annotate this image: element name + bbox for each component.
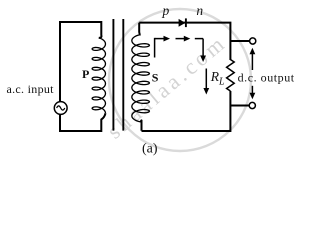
wire: primary top (a.c. side)	[60, 22, 101, 102]
inductor S (transformer secondary winding)	[132, 35, 150, 122]
transformer core	[113, 19, 123, 131]
wire: secondary top rail	[139, 23, 230, 60]
current direction arrows (conduction path)	[155, 36, 206, 62]
output terminal (+)	[250, 38, 256, 44]
diode D1 (p-n junction diode)	[179, 18, 186, 27]
resistor RL	[227, 60, 235, 92]
svg-text:a.c. input: a.c. input	[7, 82, 55, 96]
output terminal (-)	[249, 102, 255, 108]
inductor P (transformer primary winding)	[92, 38, 105, 113]
svg-text:S: S	[152, 71, 159, 85]
wire: primary bottom	[60, 113, 106, 131]
output voltage double arrow	[250, 48, 256, 99]
wire: output branch top	[230, 40, 249, 42]
svg-text:p: p	[162, 3, 170, 18]
svg-text:d.c. output: d.c. output	[238, 71, 295, 85]
current arrow through load	[205, 69, 207, 89]
wire: right rail below resistor	[142, 91, 231, 131]
ac source G1	[54, 102, 67, 115]
svg-text:(a): (a)	[142, 141, 158, 156]
wire: secondary left vertical (top)	[139, 23, 140, 35]
wire: secondary left vertical (bottom)	[140, 120, 143, 130]
wire: output branch bottom	[230, 105, 249, 107]
svg-text:n: n	[196, 3, 203, 18]
svg-text:P: P	[82, 67, 89, 81]
